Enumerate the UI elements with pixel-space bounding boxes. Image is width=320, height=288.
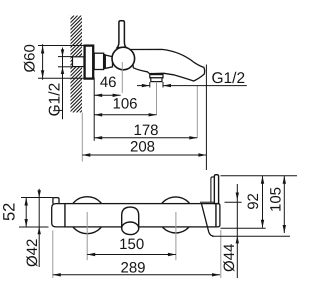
- svg-text:Ø60: Ø60: [22, 44, 39, 72]
- body right cap: [216, 204, 220, 227]
- svg-text:Ø42: Ø42: [24, 239, 41, 267]
- aerator centerline: [156, 82, 158, 115]
- dim G1/2 (wall) line: [62, 48, 64, 120]
- dim 52 line: [25, 198, 27, 228]
- aerator body: [151, 78, 162, 82]
- dim 106: [94, 114, 156, 116]
- aerator edge ticks: [149, 82, 151, 88]
- dim Ø42 line: [38, 189, 40, 267]
- dim 92 line: [262, 176, 264, 228]
- left escutcheon circle: [69, 197, 106, 234]
- spout (side view): [131, 49, 205, 81]
- dim 46: [94, 94, 120, 96]
- spout silhouette line (front view): [202, 204, 214, 236]
- svg-text:106: 106: [112, 95, 137, 112]
- collar: [94, 53, 103, 69]
- spout outlet extension line: [196, 86, 198, 138]
- mounting bump on left cap: [53, 198, 59, 204]
- wall face extension line: [81, 113, 83, 162]
- body bar: [65, 204, 216, 227]
- extension line from escutcheon: [93, 78, 95, 141]
- connector cone: [105, 55, 112, 68]
- handle lever (side view): [117, 21, 126, 48]
- dim G1/2 (wall) ticks: [58, 56, 73, 58]
- dim Ø44 line: [236, 184, 238, 278]
- dim 92 tick: [221, 227, 266, 229]
- dim Ø60 line: [42, 44, 44, 80]
- svg-text:178: 178: [133, 122, 158, 139]
- handle (front view): [214, 175, 218, 204]
- G1/2 wall connection stub: [73, 57, 85, 67]
- spout capsule (front view): [122, 207, 139, 229]
- dim Ø60 extension lines: [38, 45, 84, 47]
- body centerline: [121, 62, 123, 93]
- handle top tick: [221, 175, 298, 177]
- body left cap: [52, 204, 65, 227]
- svg-text:52: 52: [1, 203, 19, 221]
- aerator flange: [150, 75, 163, 78]
- svg-text:Ø44: Ø44: [221, 244, 238, 272]
- svg-text:G1/2: G1/2: [212, 70, 246, 87]
- svg-text:46: 46: [100, 74, 117, 91]
- body step line: [200, 201, 214, 203]
- dim Ø44 top tick: [225, 201, 242, 203]
- dim G1/2 (outlet) line: [137, 85, 150, 87]
- svg-text:105: 105: [268, 187, 285, 212]
- svg-text:289: 289: [120, 260, 145, 277]
- wall (hatched section): [0, 16, 177, 113]
- spout tip extension line: [205, 65, 207, 171]
- escutcheon centerlines: [86, 212, 88, 260]
- dim 289: [53, 274, 220, 276]
- dim 52 ticks: [21, 197, 53, 199]
- mixer body (side view): [112, 47, 135, 70]
- dim 178: [94, 137, 197, 139]
- right escutcheon circle: [158, 197, 194, 233]
- Ø44 bottom tangent line: [212, 235, 290, 237]
- escutcheon (side view): [85, 46, 94, 79]
- dim 208: [82, 154, 206, 156]
- svg-text:92: 92: [245, 193, 262, 210]
- collar divider: [103, 54, 105, 69]
- svg-text:G1/2: G1/2: [46, 83, 63, 117]
- dim 150: [87, 254, 176, 256]
- 289 extension lines: [52, 231, 54, 279]
- svg-text:208: 208: [130, 139, 155, 156]
- dim 105 line: [283, 176, 285, 233]
- svg-text:150: 150: [119, 236, 144, 253]
